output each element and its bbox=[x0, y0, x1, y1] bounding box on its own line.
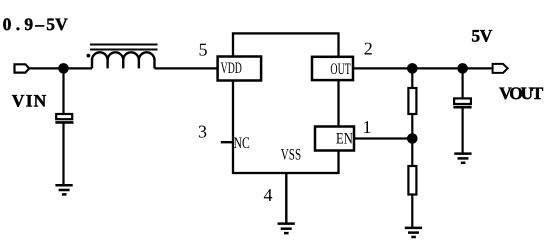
svg-text:NC: NC bbox=[234, 135, 250, 152]
capacitor C1 top plate bbox=[56, 114, 72, 119]
svg-text:VDD: VDD bbox=[221, 60, 242, 77]
node divider top bbox=[407, 63, 418, 74]
inductor L1 winding bbox=[92, 52, 154, 68]
ground VSS bbox=[278, 224, 295, 234]
node output cap bbox=[457, 63, 468, 74]
wire node to C1 bbox=[62, 68, 64, 114]
wire OUT to output terminal bbox=[353, 67, 493, 69]
pin box VDD bbox=[218, 57, 262, 81]
wire VSS pin 4 bbox=[285, 173, 287, 223]
wire C2 to ground bbox=[462, 107, 464, 153]
ground C2 bbox=[454, 154, 471, 163]
ground C1 bbox=[55, 185, 72, 194]
node VIN junction bbox=[58, 63, 69, 74]
svg-text:V: V bbox=[12, 91, 25, 111]
svg-text:V: V bbox=[480, 26, 493, 46]
svg-text:–: – bbox=[34, 14, 44, 34]
svg-text:5: 5 bbox=[199, 40, 208, 60]
svg-text:T: T bbox=[532, 83, 544, 103]
pin box EN bbox=[315, 127, 354, 151]
wire input to node bbox=[29, 67, 63, 69]
node EN junction bbox=[407, 133, 418, 144]
ground divider bbox=[405, 228, 422, 237]
wire node to inductor bbox=[64, 67, 93, 69]
wire node to R1 bbox=[411, 68, 413, 88]
inductor L1 phase dot bbox=[87, 54, 91, 58]
wire EN pin 1 bbox=[354, 137, 412, 139]
output terminal bbox=[493, 64, 508, 73]
wire node to C2 bbox=[462, 68, 464, 98]
svg-text:2: 2 bbox=[364, 38, 373, 58]
svg-text:0: 0 bbox=[3, 14, 12, 34]
capacitor C1 bottom plate bbox=[55, 121, 73, 124]
svg-text:VSS: VSS bbox=[281, 147, 301, 164]
resistor R2 bbox=[408, 166, 416, 195]
svg-text:I: I bbox=[26, 91, 33, 111]
svg-text:5: 5 bbox=[46, 14, 55, 34]
svg-text:.: . bbox=[16, 14, 20, 34]
pin box OUT bbox=[312, 57, 353, 80]
svg-text:EN: EN bbox=[336, 131, 353, 148]
svg-text:4: 4 bbox=[264, 185, 273, 205]
svg-text:9: 9 bbox=[24, 14, 33, 34]
capacitor C2 bottom plate bbox=[453, 106, 471, 109]
pin stub NC bbox=[221, 141, 233, 143]
wire R1 to node EN bbox=[411, 114, 413, 139]
IC U1 body bbox=[233, 33, 339, 173]
svg-text:OUT: OUT bbox=[330, 61, 351, 78]
wire inductor to VDD pin bbox=[155, 67, 218, 69]
resistor R1 bbox=[408, 88, 416, 114]
inductor L1 core lines bbox=[90, 45, 158, 50]
svg-text:1: 1 bbox=[363, 117, 372, 137]
wire C1 to ground bbox=[62, 122, 64, 185]
wire node to R2 bbox=[411, 139, 413, 167]
svg-text:V: V bbox=[55, 14, 68, 34]
input terminal bbox=[15, 64, 30, 72]
wire R2 to ground bbox=[411, 195, 413, 228]
svg-text:N: N bbox=[34, 91, 47, 111]
capacitor C2 top plate bbox=[454, 98, 471, 104]
svg-text:3: 3 bbox=[198, 121, 207, 141]
